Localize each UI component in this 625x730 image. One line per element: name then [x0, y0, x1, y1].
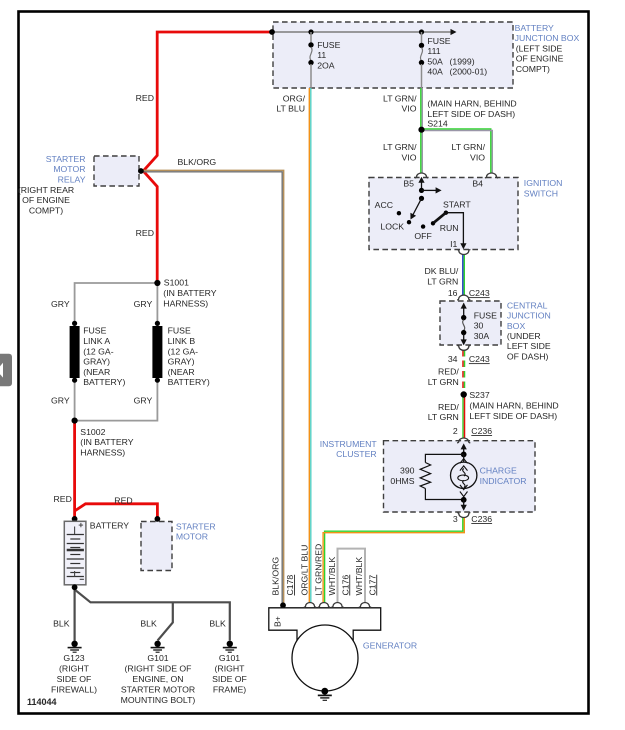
svg-text:LT GRN/: LT GRN/: [383, 142, 417, 152]
svg-text:I1: I1: [450, 239, 457, 249]
svg-text:(IN BATTERY: (IN BATTERY: [80, 437, 133, 447]
svg-text:STARTER MOTOR: STARTER MOTOR: [121, 684, 195, 694]
svg-text:BLK/ORG: BLK/ORG: [178, 157, 217, 167]
svg-text:390: 390: [400, 466, 415, 476]
svg-text:MOTOR: MOTOR: [176, 532, 208, 542]
svg-text:RED/: RED/: [438, 402, 459, 412]
svg-text:MOUNTING BOLT): MOUNTING BOLT): [121, 695, 196, 705]
svg-text:(MAIN HARN, BEHIND: (MAIN HARN, BEHIND: [469, 400, 558, 410]
svg-text:OF ENGINE: OF ENGINE: [22, 195, 70, 205]
svg-text:G101: G101: [147, 653, 168, 663]
svg-text:G101: G101: [219, 653, 240, 663]
svg-text:LT GRN: LT GRN: [428, 377, 459, 387]
svg-text:111: 111: [427, 46, 440, 56]
svg-text:(1999): (1999): [450, 56, 475, 66]
svg-text:INSTRUMENT: INSTRUMENT: [320, 439, 378, 449]
svg-text:(RIGHT: (RIGHT: [215, 664, 246, 674]
svg-text:B+: B+: [273, 616, 283, 627]
svg-text:2OA: 2OA: [317, 61, 335, 71]
svg-text:LEFT SIDE: LEFT SIDE: [507, 341, 551, 351]
svg-text:RED: RED: [54, 494, 72, 504]
svg-text:FUSE: FUSE: [427, 36, 450, 46]
svg-text:(12 GA-: (12 GA-: [168, 346, 199, 356]
svg-text:SIDE OF: SIDE OF: [57, 674, 92, 684]
svg-text:LEFT SIDE OF DASH): LEFT SIDE OF DASH): [469, 411, 557, 421]
svg-text:(RIGHT: (RIGHT: [59, 664, 90, 674]
svg-text:LINK B: LINK B: [168, 336, 196, 346]
svg-text:FUSE: FUSE: [168, 326, 191, 336]
svg-text:JUNCTION BOX: JUNCTION BOX: [515, 33, 580, 43]
svg-text:ORG/LT BLU: ORG/LT BLU: [300, 545, 310, 596]
svg-text:VIO: VIO: [470, 153, 485, 163]
svg-text:COMPT): COMPT): [516, 64, 550, 74]
svg-text:B4: B4: [472, 178, 483, 188]
svg-text:FRAME): FRAME): [213, 684, 246, 694]
svg-text:RUN: RUN: [440, 223, 459, 233]
svg-text:LT GRN: LT GRN: [428, 412, 459, 422]
svg-text:FUSE: FUSE: [474, 310, 497, 320]
svg-text:LT GRN/RED: LT GRN/RED: [313, 544, 323, 596]
svg-text:C176: C176: [340, 575, 350, 596]
svg-text:50A: 50A: [427, 56, 443, 66]
svg-text:CLUSTER: CLUSTER: [336, 449, 377, 459]
svg-text:S237: S237: [469, 390, 489, 400]
svg-text:2: 2: [453, 426, 458, 436]
svg-text:BATTERY): BATTERY): [168, 377, 210, 387]
svg-text:(UNDER: (UNDER: [507, 331, 541, 341]
svg-text:C243: C243: [469, 288, 490, 298]
svg-text:START: START: [443, 200, 471, 210]
svg-text:OF ENGINE: OF ENGINE: [516, 54, 564, 64]
svg-text:LT GRN/: LT GRN/: [452, 142, 486, 152]
svg-text:LINK A: LINK A: [83, 336, 110, 346]
svg-text:RED: RED: [136, 228, 154, 238]
svg-text:30A: 30A: [474, 331, 490, 341]
svg-text:BLK: BLK: [140, 619, 157, 629]
svg-text:(MAIN HARN, BEHIND: (MAIN HARN, BEHIND: [427, 99, 516, 109]
svg-text:C243: C243: [469, 354, 490, 364]
svg-text:BATTERY: BATTERY: [90, 520, 129, 530]
svg-text:(2000-01): (2000-01): [450, 66, 488, 76]
svg-text:GRY: GRY: [134, 299, 153, 309]
svg-text:SIDE OF: SIDE OF: [212, 674, 247, 684]
svg-text:ENGINE, ON: ENGINE, ON: [132, 674, 183, 684]
svg-text:LEFT SIDE OF DASH): LEFT SIDE OF DASH): [427, 109, 515, 119]
svg-text:34: 34: [448, 354, 458, 364]
svg-text:LT GRN: LT GRN: [427, 277, 458, 287]
svg-text:BATTERY: BATTERY: [515, 23, 554, 33]
svg-text:(LEFT SIDE: (LEFT SIDE: [516, 43, 563, 53]
svg-text:INDICATOR: INDICATOR: [480, 476, 527, 486]
svg-text:(RIGHT SIDE OF: (RIGHT SIDE OF: [125, 664, 192, 674]
svg-text:FIREWALL): FIREWALL): [51, 684, 97, 694]
svg-text:0HMS: 0HMS: [390, 476, 414, 486]
svg-text:WHT/BLK: WHT/BLK: [327, 557, 337, 596]
svg-text:(NEAR: (NEAR: [168, 367, 195, 377]
svg-text:C236: C236: [471, 514, 492, 524]
svg-text:OFF: OFF: [414, 231, 431, 241]
svg-text:GRY: GRY: [51, 396, 70, 406]
svg-text:S1001: S1001: [164, 278, 189, 288]
svg-text:16: 16: [448, 288, 458, 298]
svg-text:RED: RED: [136, 93, 154, 103]
svg-text:LOCK: LOCK: [380, 221, 404, 231]
svg-text:ORG/: ORG/: [283, 93, 306, 103]
svg-text:SWITCH: SWITCH: [524, 189, 558, 199]
svg-text:WHT/BLK: WHT/BLK: [354, 557, 364, 596]
svg-text:30: 30: [474, 321, 484, 331]
svg-text:11: 11: [317, 50, 326, 60]
svg-text:B5: B5: [403, 178, 414, 188]
svg-text:LT BLU: LT BLU: [276, 104, 305, 114]
svg-text:BATTERY): BATTERY): [83, 377, 125, 387]
svg-text:JUNCTION: JUNCTION: [507, 311, 551, 321]
svg-text:GRAY): GRAY): [83, 357, 110, 367]
svg-text:IGNITION: IGNITION: [524, 178, 563, 188]
svg-text:ACC: ACC: [375, 200, 393, 210]
svg-text:S214: S214: [427, 119, 447, 129]
svg-text:GRY: GRY: [51, 299, 70, 309]
svg-text:40A: 40A: [427, 66, 443, 76]
svg-text:(12 GA-: (12 GA-: [83, 346, 114, 356]
svg-text:RED/: RED/: [438, 367, 459, 377]
svg-text:LT GRN/: LT GRN/: [383, 93, 417, 103]
svg-text:FUSE: FUSE: [317, 40, 340, 50]
svg-text:COMPT): COMPT): [29, 205, 63, 215]
svg-text:C178: C178: [285, 575, 295, 596]
svg-text:S1002: S1002: [80, 427, 105, 437]
svg-text:GRY: GRY: [134, 396, 153, 406]
svg-text:BLK: BLK: [53, 619, 70, 629]
svg-text:114044: 114044: [27, 697, 57, 707]
svg-text:VIO: VIO: [402, 153, 417, 163]
svg-text:STARTER: STARTER: [176, 521, 216, 531]
svg-text:(NEAR: (NEAR: [83, 367, 110, 377]
svg-text:CENTRAL: CENTRAL: [507, 300, 548, 310]
svg-text:BOX: BOX: [507, 321, 526, 331]
svg-text:(IN BATTERY: (IN BATTERY: [163, 288, 216, 298]
svg-text:MOTOR: MOTOR: [53, 164, 85, 174]
svg-text:VIO: VIO: [402, 104, 417, 114]
svg-text:(RIGHT REAR: (RIGHT REAR: [18, 185, 74, 195]
svg-text:OF DASH): OF DASH): [507, 351, 549, 361]
svg-text:RED: RED: [114, 496, 132, 506]
svg-text:HARNESS): HARNESS): [163, 298, 208, 308]
svg-text:BLK/ORG: BLK/ORG: [271, 557, 281, 596]
svg-text:STARTER: STARTER: [46, 154, 86, 164]
svg-text:CHARGE: CHARGE: [480, 466, 517, 476]
svg-text:C236: C236: [471, 426, 492, 436]
svg-text:DK BLU/: DK BLU/: [425, 266, 459, 276]
svg-text:RELAY: RELAY: [58, 175, 86, 185]
svg-text:GRAY): GRAY): [168, 357, 195, 367]
svg-text:GENERATOR: GENERATOR: [363, 640, 417, 650]
svg-text:HARNESS): HARNESS): [80, 447, 125, 457]
svg-text:C177: C177: [367, 575, 377, 596]
svg-text:FUSE: FUSE: [83, 326, 106, 336]
svg-text:BLK: BLK: [209, 619, 226, 629]
svg-text:3: 3: [453, 514, 458, 524]
svg-text:G123: G123: [63, 653, 84, 663]
